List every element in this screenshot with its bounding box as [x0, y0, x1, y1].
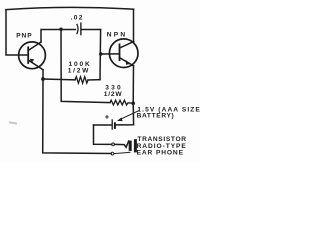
svg-text:NPN: NPN: [107, 32, 128, 39]
earphone jack J1: [111, 139, 137, 155]
resistor R2 330: [110, 100, 132, 105]
wire capacitor to NPN base node: [99, 30, 102, 80]
wire NPN collector to top rail: [133, 9, 135, 41]
svg-text:TRANSISTOR: TRANSISTOR: [137, 136, 186, 143]
svg-text:1/2W: 1/2W: [104, 91, 123, 98]
svg-text:.02: .02: [71, 15, 84, 22]
svg-text:1/2W: 1/2W: [68, 67, 90, 74]
wire battery negative down and right to jack tip contact: [94, 125, 112, 144]
node junction dot B: [99, 52, 103, 56]
transistor Q1 PNP: [19, 42, 46, 70]
wire left frame to PNP base: [6, 10, 28, 55]
wire PNP emitter down to bottom rail and right to earphone: [43, 70, 112, 154]
capacitor C1 .02: [77, 23, 101, 34]
scan smudge: [10, 123, 16, 124]
node junction dot A: [59, 28, 62, 31]
wire PNP collector up and right to capacitor: [41, 30, 75, 43]
svg-text:EAR PHONE: EAR PHONE: [137, 150, 184, 157]
svg-text:PNP: PNP: [16, 33, 32, 40]
wire top rail: [6, 7, 134, 9]
node junction dot C: [41, 77, 45, 81]
resistor R1 100K: [43, 77, 100, 84]
node junction dot D: [131, 102, 135, 106]
wire branch from node A down and right to R2: [61, 29, 110, 102]
wire NPN emitter down to battery: [116, 66, 134, 125]
wire NPN base lead: [101, 53, 120, 55]
battery plus sign: [106, 116, 109, 119]
arrow from battery label: [117, 111, 139, 122]
svg-text:BATTERY): BATTERY): [137, 113, 175, 120]
transistor Q2 NPN: [109, 39, 138, 68]
battery B1 1.5V: [94, 120, 115, 129]
